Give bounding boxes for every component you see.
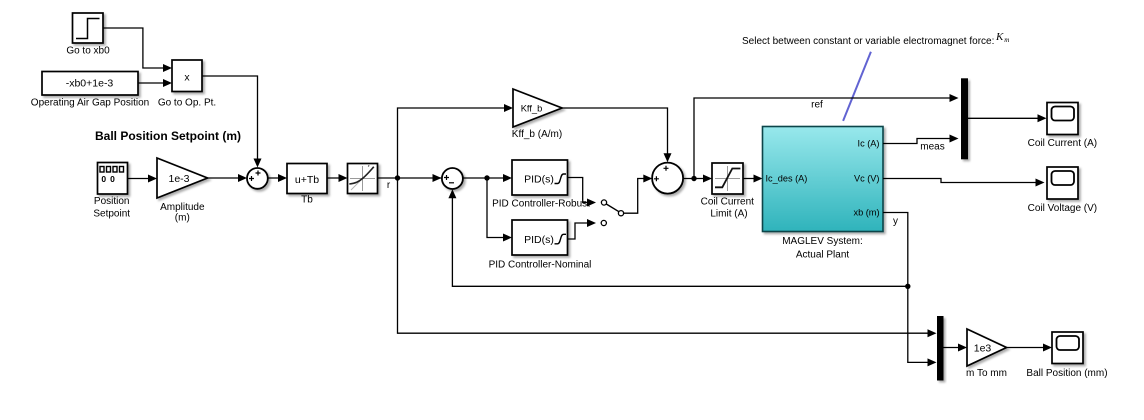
svg-text:Ic (A): Ic (A)	[858, 138, 880, 148]
mux2	[937, 316, 944, 381]
feedback wire xb to sum2 bottom	[448, 189, 907, 286]
wire mux1 to scope1	[968, 114, 1047, 122]
svg-text:y: y	[893, 216, 898, 227]
wire mux2 to gain 1e3	[944, 344, 968, 352]
svg-text:Setpoint: Setpoint	[93, 209, 130, 220]
svg-text:Position: Position	[94, 196, 130, 207]
svg-text:PID(s): PID(s)	[524, 234, 554, 246]
annotation line (blue)	[843, 52, 871, 121]
wire junction down to PID nominal	[487, 178, 512, 242]
svg-text:Kff_b (A/m): Kff_b (A/m)	[512, 129, 562, 140]
wire sum2 to PID robust with junction	[463, 174, 512, 182]
svg-text:u+Tb: u+Tb	[295, 174, 319, 186]
svg-text:PID Controller-Robust: PID Controller-Robust	[492, 199, 590, 210]
wire product to sum1 top	[202, 76, 262, 168]
svg-text:Coil Current (A): Coil Current (A)	[1028, 138, 1097, 149]
svg-text:Go to Op. Pt.: Go to Op. Pt.	[158, 98, 216, 109]
svg-text:Select between constant or var: Select between constant or variable elec…	[742, 36, 994, 47]
curve (soft saturation) block	[348, 164, 378, 194]
wire ref: junction up to mux1 in1	[694, 94, 959, 179]
sum2	[442, 168, 463, 189]
sum1	[247, 168, 268, 189]
scope Coil Current (A)	[1028, 103, 1097, 150]
svg-text:K: K	[995, 31, 1004, 43]
PID Controller-Nominal	[489, 220, 592, 271]
svg-text:Actual Plant: Actual Plant	[796, 250, 850, 261]
gain m To mm (1e3)	[966, 329, 1007, 379]
wire constant to product in2	[138, 79, 172, 87]
svg-text:1e-3: 1e-3	[168, 173, 189, 185]
svg-text:m: m	[1004, 36, 1009, 44]
scope Coil Voltage (V)	[1028, 167, 1097, 214]
wire PID nominal to switch in2	[568, 219, 607, 239]
svg-text:Ball Position Setpoint (m): Ball Position Setpoint (m)	[95, 129, 241, 143]
gain Kff_b	[512, 89, 562, 140]
svg-text:x: x	[184, 71, 190, 83]
svg-text:Ball Position (mm): Ball Position (mm)	[1026, 368, 1107, 379]
svg-text:Operating Air Gap Position: Operating Air Gap Position	[31, 98, 149, 109]
manual switch lever and pivot	[606, 204, 623, 216]
block Tb (u+Tb)	[287, 164, 327, 206]
constant block -xb0+1e-3	[31, 72, 149, 109]
wire xb down with junction	[883, 213, 937, 367]
wire sum3 to saturation with junction	[683, 175, 712, 183]
PID Controller-Robust	[492, 160, 590, 210]
svg-text:ref: ref	[811, 100, 823, 111]
MAGLEV System: Actual Plant subsystem	[763, 127, 884, 261]
step source block (Go to xb0)	[66, 13, 110, 57]
wire gain to scope3	[1007, 344, 1053, 352]
svg-text:PID(s): PID(s)	[524, 174, 554, 186]
wire Vc to scope2	[883, 179, 1045, 187]
wire saturation to MAGLEV	[743, 175, 763, 183]
svg-text:0 0: 0 0	[101, 174, 115, 184]
svg-text:Coil Voltage (V): Coil Voltage (V)	[1028, 203, 1097, 214]
wire Ic to mux1 in2 (meas)	[883, 135, 959, 153]
wire signal editor to gain	[128, 175, 158, 183]
svg-text:(m): (m)	[175, 213, 190, 224]
wire step to product in1	[103, 28, 172, 72]
svg-text:MAGLEV System:: MAGLEV System:	[782, 236, 863, 247]
scope Ball Position (mm)	[1026, 332, 1107, 379]
svg-text:Go to xb0: Go to xb0	[66, 46, 110, 57]
svg-text:Coil Current: Coil Current	[701, 197, 755, 208]
svg-text:PID Controller-Nominal: PID Controller-Nominal	[489, 260, 592, 271]
wire PID robust to switch in1	[568, 178, 607, 207]
svg-text:meas: meas	[920, 141, 944, 152]
wire sum1 to u+Tb	[268, 174, 287, 182]
svg-text:Kff_b: Kff_b	[521, 103, 543, 113]
svg-text:Limit (A): Limit (A)	[710, 208, 747, 219]
svg-text:1e3: 1e3	[974, 343, 992, 355]
svg-text:Amplitude: Amplitude	[160, 202, 205, 213]
sum3	[652, 163, 683, 194]
svg-text:xb (m): xb (m)	[853, 207, 879, 217]
svg-text:Ic_des (A): Ic_des (A)	[766, 173, 808, 183]
wire r down to mux2 in1	[398, 178, 937, 337]
wire r up to Kff_b	[398, 104, 514, 178]
wire Kff_b to sum3 top	[562, 108, 672, 162]
node r	[378, 174, 442, 191]
product block x (Go to Op. Pt.)	[158, 60, 216, 109]
svg-text:Vc (V): Vc (V)	[854, 173, 880, 183]
wire Tb to curve block	[327, 174, 348, 182]
gain Amplitude 1e-3	[157, 158, 208, 224]
svg-text:Tb: Tb	[301, 195, 313, 206]
wire gain to sum1	[208, 174, 248, 182]
svg-text:m To mm: m To mm	[966, 368, 1007, 379]
wire switch to sum3	[624, 175, 653, 214]
svg-text:-xb0+1e-3: -xb0+1e-3	[66, 78, 114, 90]
signal editor block (Position Setpoint)	[93, 163, 130, 220]
mux1	[961, 78, 968, 159]
saturation block (Coil Current Limit)	[701, 163, 755, 219]
